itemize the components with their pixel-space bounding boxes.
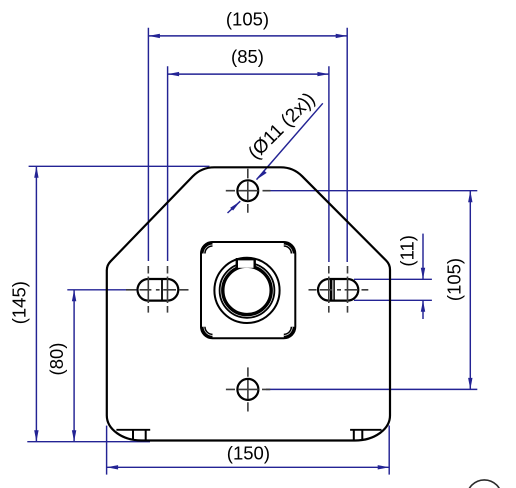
bottom inner step line right	[350, 429, 381, 431]
square corner relief bottom-left	[203, 327, 213, 337]
svg-text:(145): (145)	[9, 281, 30, 324]
ring notch left stub	[236, 259, 238, 268]
extension line dim105R top	[266, 190, 478, 192]
left slot chord	[161, 279, 163, 300]
square corner relief top-left	[203, 244, 213, 254]
extension line dim150 left	[106, 426, 108, 475]
ring inner thick circle	[223, 266, 271, 314]
central square boss	[201, 242, 295, 338]
svg-text:(11): (11)	[397, 235, 418, 267]
extension line dim85 left	[167, 66, 169, 261]
ring notch mask	[238, 258, 254, 268]
left tab	[133, 430, 146, 441]
square corner relief bottom-right	[284, 327, 294, 337]
svg-text:(105): (105)	[443, 258, 464, 301]
ring middle circle	[220, 263, 275, 318]
extension line dim105 right	[346, 28, 348, 262]
dimension (150) bottom	[107, 442, 390, 469]
extension line dim11 top	[354, 278, 432, 280]
right slot	[318, 279, 358, 301]
bottom hole centerline horizontal	[226, 388, 270, 390]
svg-text:(80): (80)	[46, 343, 67, 376]
bottom hole centerline vertical	[247, 367, 249, 411]
square corner relief top-right	[284, 244, 294, 254]
right slot chord thick	[330, 279, 332, 300]
svg-text:(105): (105)	[226, 9, 269, 30]
right slot chord thin	[333, 279, 335, 300]
extension line dim145 top	[29, 165, 210, 167]
left slot	[138, 279, 179, 301]
extension line dim105R bottom	[266, 388, 477, 390]
ring outer circle	[214, 258, 279, 323]
dimension (145) left	[9, 166, 39, 441]
leader diameter 11	[228, 89, 323, 213]
plate outline	[107, 167, 390, 440]
dimension (105) right	[443, 191, 472, 390]
dimension (105) top	[148, 9, 347, 38]
dimension (11) right	[397, 234, 426, 319]
right slot centerline horizontal	[309, 289, 369, 291]
bottom inner step line left	[116, 429, 150, 431]
left slot centerline vertical 1	[147, 266, 149, 313]
balloon circle bottom-right	[467, 480, 502, 488]
extension line dim80 top	[67, 289, 136, 291]
extension line dim150 right	[388, 426, 390, 475]
extension line dim105 left	[147, 28, 149, 261]
right tab	[354, 430, 363, 441]
ring notch right stub	[253, 259, 255, 268]
top hole centerline horizontal	[226, 190, 271, 192]
top hole	[237, 180, 258, 201]
svg-text:(85): (85)	[231, 46, 264, 67]
right slot centerline vertical 2	[347, 266, 349, 313]
right slot centerline vertical 1	[328, 266, 330, 313]
extension line dim145 bottom	[27, 441, 150, 443]
left slot centerline vertical 2	[167, 266, 169, 313]
dimension (80) left	[46, 290, 76, 442]
extension line dim11 bottom	[354, 299, 432, 301]
bottom hole	[237, 379, 258, 400]
extension line dim85 right	[328, 66, 330, 262]
dimension (85) top	[168, 46, 329, 76]
top hole centerline vertical	[247, 169, 249, 213]
svg-text:(150): (150)	[227, 442, 270, 463]
left slot centerline horizontal	[126, 289, 189, 291]
ring notch top edge	[236, 258, 256, 260]
